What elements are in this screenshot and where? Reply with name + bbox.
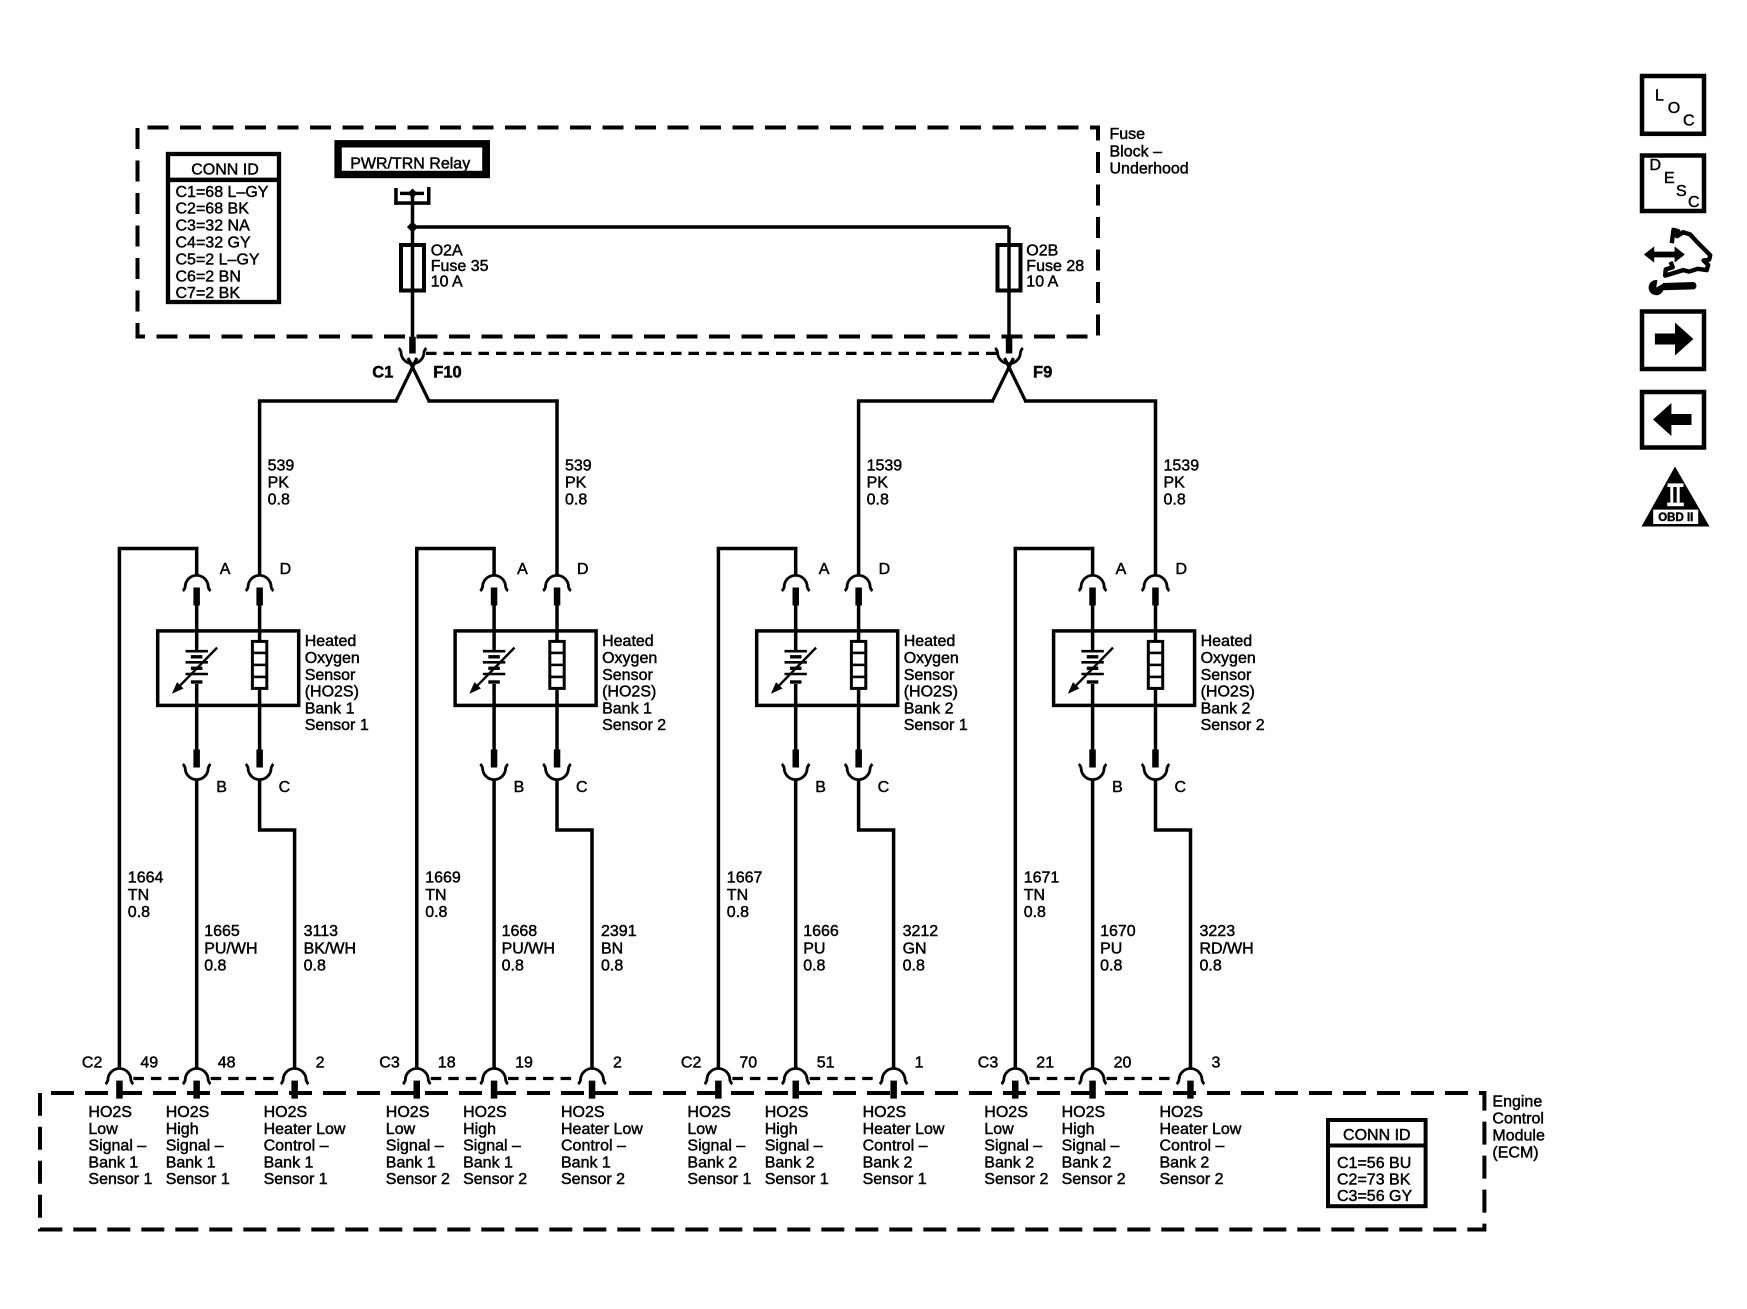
svg-text:Sensor 2: Sensor 2 bbox=[1160, 1171, 1224, 1188]
svg-text:C3=56 GY: C3=56 GY bbox=[1337, 1188, 1412, 1205]
label connector C2 (group 3) bbox=[681, 1055, 702, 1072]
svg-text:Bank 1: Bank 1 bbox=[166, 1154, 216, 1171]
svg-text:1665: 1665 bbox=[204, 923, 240, 940]
ECM pin 21 connector (group 4) bbox=[1001, 1069, 1029, 1099]
svg-text:Sensor 2: Sensor 2 bbox=[386, 1171, 450, 1188]
wire heater low 2391 pin C to ECM (group 2) bbox=[557, 780, 592, 1068]
label pin number 2 bbox=[316, 1055, 325, 1072]
svg-text:Sensor 2: Sensor 2 bbox=[602, 717, 666, 734]
svg-text:B: B bbox=[216, 779, 227, 796]
svg-text:1666: 1666 bbox=[803, 923, 839, 940]
connector pin A (group 4) bbox=[1079, 575, 1107, 605]
label pin A (group 1) bbox=[220, 561, 231, 578]
HO2S sensor box Bank 2 Sensor 2 bbox=[1054, 631, 1195, 706]
connector F9 splice bbox=[857, 337, 1157, 576]
label Engine Control Module (ECM) bbox=[1492, 1094, 1545, 1162]
connector pin D (group 2) bbox=[543, 575, 571, 605]
ECM connector dotted line (group 1) bbox=[133, 1077, 280, 1080]
svg-text:Heater Low: Heater Low bbox=[1160, 1121, 1242, 1138]
label pin C (group 3) bbox=[878, 779, 890, 796]
wire 539 PK feed to HO2S Bank 1 Sensor 2 label bbox=[565, 458, 592, 509]
label pin C (group 2) bbox=[576, 779, 588, 796]
wire 1539 PK feed to HO2S Bank 2 Sensor 2 label bbox=[1164, 458, 1200, 509]
label pin B (group 4) bbox=[1112, 779, 1123, 796]
svg-text:10 A: 10 A bbox=[1026, 273, 1058, 290]
svg-text:HO2S: HO2S bbox=[1160, 1104, 1204, 1121]
wire low signal 1671 from ECM to sensor A (group 4) bbox=[1015, 549, 1092, 1069]
label pin number 21 bbox=[1036, 1055, 1054, 1072]
svg-text:3223: 3223 bbox=[1200, 923, 1236, 940]
svg-text:HO2S: HO2S bbox=[984, 1104, 1028, 1121]
svg-text:0.8: 0.8 bbox=[268, 492, 290, 509]
svg-text:Control: Control bbox=[1492, 1111, 1544, 1128]
heater element group 3 bbox=[851, 641, 865, 688]
svg-text:PK: PK bbox=[867, 475, 889, 492]
svg-text:3113: 3113 bbox=[304, 923, 339, 940]
connector pin A (group 3) bbox=[782, 575, 810, 605]
label ECM pin 20 description bbox=[1062, 1104, 1126, 1188]
wire heater to pin C (group 4) bbox=[1154, 688, 1158, 751]
svg-text:F10: F10 bbox=[433, 364, 461, 382]
label pin C (group 1) bbox=[279, 779, 291, 796]
svg-text:0.8: 0.8 bbox=[1200, 957, 1222, 974]
svg-text:21: 21 bbox=[1036, 1055, 1054, 1072]
svg-text:539: 539 bbox=[268, 458, 295, 475]
svg-text:Sensor 2: Sensor 2 bbox=[463, 1171, 527, 1188]
svg-text:HO2S: HO2S bbox=[386, 1104, 430, 1121]
svg-text:19: 19 bbox=[515, 1055, 533, 1072]
label ECM pin 2 description bbox=[561, 1104, 643, 1188]
wire heater low 3223 pin C to ECM (group 4) bbox=[1156, 780, 1191, 1068]
svg-text:Bank 2: Bank 2 bbox=[687, 1154, 737, 1171]
svg-text:48: 48 bbox=[218, 1055, 236, 1072]
ECM pin 20 connector (group 4) bbox=[1079, 1069, 1107, 1099]
svg-text:539: 539 bbox=[565, 458, 592, 475]
svg-text:Low: Low bbox=[386, 1121, 416, 1138]
svg-text:(HO2S): (HO2S) bbox=[602, 684, 656, 701]
svg-text:0.8: 0.8 bbox=[565, 492, 587, 509]
svg-text:C1: C1 bbox=[372, 364, 393, 382]
svg-text:Control –: Control – bbox=[264, 1138, 329, 1155]
svg-text:Heated: Heated bbox=[904, 633, 956, 650]
ECM connector dotted line (group 2) bbox=[431, 1077, 578, 1080]
label fuse O2B bbox=[1026, 243, 1084, 291]
svg-text:PU/WH: PU/WH bbox=[204, 940, 257, 957]
svg-text:C2: C2 bbox=[82, 1055, 103, 1072]
connector boundary dotted line bbox=[426, 352, 997, 355]
label pin A (group 3) bbox=[819, 561, 830, 578]
HO2S sensor box Bank 2 Sensor 1 bbox=[757, 631, 898, 706]
svg-text:A: A bbox=[819, 561, 830, 578]
wire heater low 3113 pin C to ECM (group 1) bbox=[260, 780, 295, 1068]
label pin number 20 bbox=[1114, 1055, 1132, 1072]
label wire 1670 PU 0.8 bbox=[1100, 923, 1136, 974]
svg-text:PWR/TRN Relay: PWR/TRN Relay bbox=[350, 156, 470, 173]
connector C1 / F10 splice bbox=[258, 337, 559, 576]
svg-text:Sensor 2: Sensor 2 bbox=[561, 1171, 625, 1188]
svg-text:Signal –: Signal – bbox=[463, 1138, 521, 1155]
svg-text:B: B bbox=[1112, 779, 1123, 796]
svg-text:Signal –: Signal – bbox=[88, 1138, 146, 1155]
label HO2S box group 3 bbox=[904, 633, 968, 734]
wire high signal 1666 pin B to ECM (group 3) bbox=[794, 780, 798, 1068]
sensor element (variable voltage source) group 2 bbox=[469, 648, 514, 694]
label HO2S box group 4 bbox=[1201, 633, 1265, 734]
svg-text:Block –: Block – bbox=[1110, 143, 1163, 160]
ECM pin 3 connector (group 4) bbox=[1177, 1069, 1205, 1099]
label pin number 70 bbox=[739, 1055, 757, 1072]
svg-text:Signal –: Signal – bbox=[166, 1138, 224, 1155]
svg-text:PU: PU bbox=[1100, 940, 1122, 957]
svg-text:51: 51 bbox=[817, 1055, 835, 1072]
svg-text:D: D bbox=[879, 561, 891, 578]
connector pin D (group 3) bbox=[845, 575, 873, 605]
svg-text:PK: PK bbox=[268, 475, 290, 492]
svg-text:PK: PK bbox=[1164, 475, 1186, 492]
connector pin A (group 2) bbox=[480, 575, 508, 605]
label pin number 49 bbox=[140, 1055, 158, 1072]
wire low signal 1664 from ECM to sensor A (group 1) bbox=[119, 549, 196, 1069]
svg-text:Sensor 1: Sensor 1 bbox=[305, 717, 369, 734]
ECM pin 18 connector (group 2) bbox=[403, 1069, 431, 1099]
svg-text:C: C bbox=[1683, 112, 1695, 129]
label ECM pin 3 description bbox=[1160, 1104, 1242, 1188]
icon LOC box bbox=[1642, 76, 1704, 134]
heater element group 4 bbox=[1148, 641, 1162, 688]
svg-text:Control –: Control – bbox=[561, 1138, 626, 1155]
ECM pin 48 connector (group 1) bbox=[183, 1069, 211, 1099]
svg-text:A: A bbox=[517, 561, 528, 578]
svg-text:A: A bbox=[220, 561, 231, 578]
ECM pin 70 connector (group 3) bbox=[705, 1069, 733, 1099]
label connector C3 (group 4) bbox=[978, 1055, 999, 1072]
svg-text:High: High bbox=[166, 1121, 199, 1138]
fuse O2A Fuse 35 10A bbox=[401, 245, 424, 291]
svg-text:Bank 2: Bank 2 bbox=[984, 1154, 1034, 1171]
svg-text:Fuse: Fuse bbox=[1110, 126, 1146, 143]
svg-text:C3=32 NA: C3=32 NA bbox=[176, 218, 251, 235]
wire pin A into sensor box (group 2) bbox=[492, 605, 496, 651]
svg-text:49: 49 bbox=[140, 1055, 158, 1072]
connector pin A (group 1) bbox=[183, 575, 211, 605]
svg-text:Bank 1: Bank 1 bbox=[463, 1154, 513, 1171]
label ECM pin 21 description bbox=[984, 1104, 1048, 1188]
connector pin B (group 1) bbox=[183, 750, 211, 780]
svg-text:F9: F9 bbox=[1033, 364, 1052, 382]
label F9 bbox=[1033, 364, 1052, 382]
svg-text:TN: TN bbox=[727, 887, 748, 904]
wire 539 PK feed to HO2S Bank 1 Sensor 1 label bbox=[268, 458, 295, 509]
svg-text:HO2S: HO2S bbox=[88, 1104, 132, 1121]
svg-text:Heater Low: Heater Low bbox=[863, 1121, 945, 1138]
svg-text:Heated: Heated bbox=[602, 633, 654, 650]
svg-text:0.8: 0.8 bbox=[502, 957, 524, 974]
svg-text:C2=68 BK: C2=68 BK bbox=[176, 201, 250, 218]
svg-text:20: 20 bbox=[1114, 1055, 1132, 1072]
svg-text:0.8: 0.8 bbox=[1024, 904, 1046, 921]
label pin number 19 bbox=[515, 1055, 533, 1072]
svg-text:C5=2 L–GY: C5=2 L–GY bbox=[176, 251, 260, 268]
svg-text:HO2S: HO2S bbox=[1062, 1104, 1106, 1121]
heater element group 1 bbox=[252, 641, 266, 688]
svg-text:BK/WH: BK/WH bbox=[304, 940, 356, 957]
connector pin C (group 1) bbox=[246, 750, 274, 780]
svg-text:(HO2S): (HO2S) bbox=[305, 684, 359, 701]
label wire 1664 TN 0.8 bbox=[128, 870, 164, 921]
svg-text:Sensor: Sensor bbox=[602, 667, 653, 684]
svg-text:Heated: Heated bbox=[1201, 633, 1253, 650]
wire heater to pin C (group 2) bbox=[555, 688, 559, 751]
svg-text:Sensor 1: Sensor 1 bbox=[264, 1171, 328, 1188]
svg-text:1671: 1671 bbox=[1024, 870, 1060, 887]
label wire 2391 BN 0.8 bbox=[601, 923, 637, 974]
svg-text:TN: TN bbox=[1024, 887, 1045, 904]
label pin number 48 bbox=[218, 1055, 236, 1072]
svg-text:D: D bbox=[1176, 561, 1188, 578]
svg-text:PU: PU bbox=[803, 940, 825, 957]
svg-text:Engine: Engine bbox=[1492, 1094, 1542, 1111]
wire pin D into sensor box (group 3) bbox=[857, 605, 861, 643]
svg-text:Signal –: Signal – bbox=[1062, 1138, 1120, 1155]
label wire 1665 PU/WH 0.8 bbox=[204, 923, 257, 974]
svg-text:1539: 1539 bbox=[867, 458, 903, 475]
svg-text:C: C bbox=[279, 779, 291, 796]
wire high signal 1668 pin B to ECM (group 2) bbox=[492, 780, 496, 1068]
ECM connector dotted line (group 4) bbox=[1029, 1077, 1176, 1080]
svg-text:Module: Module bbox=[1492, 1127, 1545, 1144]
svg-text:Low: Low bbox=[88, 1121, 118, 1138]
svg-text:0.8: 0.8 bbox=[867, 492, 889, 509]
svg-text:Oxygen: Oxygen bbox=[1201, 650, 1256, 667]
svg-text:C1=56 BU: C1=56 BU bbox=[1337, 1155, 1411, 1172]
svg-text:Bank 1: Bank 1 bbox=[386, 1154, 436, 1171]
ECM pin 51 connector (group 3) bbox=[782, 1069, 810, 1099]
ECM connector dotted line (group 3) bbox=[732, 1077, 879, 1080]
label pin B (group 2) bbox=[514, 779, 525, 796]
label F10 bbox=[433, 364, 461, 382]
svg-text:TN: TN bbox=[128, 887, 149, 904]
svg-text:Bank 1: Bank 1 bbox=[561, 1154, 611, 1171]
svg-text:Signal –: Signal – bbox=[386, 1138, 444, 1155]
label Fuse Block - Underhood bbox=[1110, 126, 1189, 178]
relay K1 output contact symbol bbox=[394, 187, 430, 205]
svg-text:D: D bbox=[577, 561, 589, 578]
svg-text:D: D bbox=[1650, 157, 1662, 174]
svg-text:D: D bbox=[280, 561, 292, 578]
wire sensor to pin B (group 1) bbox=[195, 684, 199, 751]
label wire 1666 PU 0.8 bbox=[803, 923, 839, 974]
svg-text:0.8: 0.8 bbox=[601, 957, 623, 974]
wire pin D into sensor box (group 2) bbox=[555, 605, 559, 643]
svg-text:S: S bbox=[1676, 183, 1687, 200]
label pin D (group 3) bbox=[879, 561, 891, 578]
label HO2S box group 1 bbox=[305, 633, 369, 734]
svg-text:1667: 1667 bbox=[727, 870, 763, 887]
svg-text:Bank 2: Bank 2 bbox=[765, 1154, 815, 1171]
label pin A (group 2) bbox=[517, 561, 528, 578]
svg-text:0.8: 0.8 bbox=[727, 904, 749, 921]
wire heater to pin C (group 3) bbox=[857, 688, 861, 751]
svg-text:(ECM): (ECM) bbox=[1492, 1144, 1538, 1161]
svg-text:Signal –: Signal – bbox=[984, 1138, 1042, 1155]
connector pin B (group 2) bbox=[480, 750, 508, 780]
label pin number 2 bbox=[613, 1055, 622, 1072]
wire relay to fuse O2A bbox=[411, 195, 415, 338]
svg-text:HO2S: HO2S bbox=[687, 1104, 731, 1121]
svg-text:PU/WH: PU/WH bbox=[502, 940, 555, 957]
connector pin D (group 1) bbox=[246, 575, 274, 605]
svg-text:C3: C3 bbox=[978, 1055, 999, 1072]
svg-text:0.8: 0.8 bbox=[425, 904, 447, 921]
label connector C2 (group 1) bbox=[82, 1055, 103, 1072]
wire pin D into sensor box (group 4) bbox=[1154, 605, 1158, 643]
svg-text:Oxygen: Oxygen bbox=[904, 650, 959, 667]
svg-text:3212: 3212 bbox=[903, 923, 939, 940]
svg-text:TN: TN bbox=[425, 887, 446, 904]
svg-text:HO2S: HO2S bbox=[463, 1104, 507, 1121]
svg-text:Heater Low: Heater Low bbox=[264, 1121, 346, 1138]
label connector C3 (group 2) bbox=[379, 1055, 400, 1072]
label pin number 3 bbox=[1212, 1055, 1221, 1072]
svg-text:Bank 2: Bank 2 bbox=[863, 1154, 913, 1171]
wire bus to fuse O2B bbox=[411, 227, 1009, 338]
label pin D (group 2) bbox=[577, 561, 589, 578]
svg-text:Sensor: Sensor bbox=[1201, 667, 1252, 684]
svg-text:BN: BN bbox=[601, 940, 623, 957]
svg-text:Bank 1: Bank 1 bbox=[264, 1154, 314, 1171]
svg-text:E: E bbox=[1664, 170, 1675, 187]
sensor element (variable voltage source) group 4 bbox=[1068, 648, 1113, 694]
label pin number 51 bbox=[817, 1055, 835, 1072]
label pin C (group 4) bbox=[1175, 779, 1187, 796]
svg-text:1539: 1539 bbox=[1164, 458, 1200, 475]
svg-text:Bank 1: Bank 1 bbox=[305, 700, 355, 717]
wire heater low 3212 pin C to ECM (group 3) bbox=[859, 780, 894, 1068]
wire sensor to pin B (group 2) bbox=[492, 684, 496, 751]
svg-text:Underhood: Underhood bbox=[1110, 161, 1189, 178]
svg-text:0.8: 0.8 bbox=[903, 957, 925, 974]
wire high signal 1665 pin B to ECM (group 1) bbox=[195, 780, 199, 1068]
svg-text:0.8: 0.8 bbox=[204, 957, 226, 974]
svg-text:Bank 2: Bank 2 bbox=[1160, 1154, 1210, 1171]
svg-text:B: B bbox=[815, 779, 826, 796]
svg-text:Low: Low bbox=[984, 1121, 1014, 1138]
svg-text:Sensor 2: Sensor 2 bbox=[1201, 717, 1265, 734]
svg-text:1669: 1669 bbox=[425, 870, 461, 887]
svg-text:High: High bbox=[463, 1121, 496, 1138]
svg-text:Control –: Control – bbox=[1160, 1138, 1225, 1155]
svg-text:OBD II: OBD II bbox=[1658, 512, 1693, 524]
svg-text:Sensor 2: Sensor 2 bbox=[984, 1171, 1048, 1188]
svg-text:Bank 2: Bank 2 bbox=[904, 700, 954, 717]
svg-text:HO2S: HO2S bbox=[561, 1104, 605, 1121]
svg-text:Control –: Control – bbox=[863, 1138, 928, 1155]
svg-text:A: A bbox=[1116, 561, 1127, 578]
label pin B (group 3) bbox=[815, 779, 826, 796]
sensor element (variable voltage source) group 3 bbox=[771, 648, 816, 694]
svg-text:1668: 1668 bbox=[502, 923, 538, 940]
svg-text:70: 70 bbox=[739, 1055, 757, 1072]
PWR/TRN Relay label box bbox=[334, 140, 490, 178]
label pin D (group 1) bbox=[280, 561, 292, 578]
ECM pin 2 connector (group 1) bbox=[281, 1069, 309, 1099]
wire pin A into sensor box (group 3) bbox=[794, 605, 798, 651]
fuse O2B Fuse 28 10A bbox=[998, 245, 1021, 291]
svg-text:Sensor 1: Sensor 1 bbox=[765, 1171, 829, 1188]
svg-text:0.8: 0.8 bbox=[1164, 492, 1186, 509]
label ECM pin 48 description bbox=[166, 1104, 230, 1188]
wire pin D into sensor box (group 1) bbox=[258, 605, 262, 643]
svg-text:0.8: 0.8 bbox=[128, 904, 150, 921]
svg-text:C: C bbox=[576, 779, 588, 796]
wire sensor to pin B (group 3) bbox=[794, 684, 798, 751]
svg-text:Low: Low bbox=[687, 1121, 717, 1138]
svg-text:Sensor 1: Sensor 1 bbox=[687, 1171, 751, 1188]
CONN ID table (fuse block) bbox=[168, 154, 279, 302]
svg-text:(HO2S): (HO2S) bbox=[1201, 684, 1255, 701]
svg-text:PK: PK bbox=[565, 475, 587, 492]
svg-text:2: 2 bbox=[613, 1055, 622, 1072]
svg-text:RD/WH: RD/WH bbox=[1200, 940, 1254, 957]
svg-text:Sensor: Sensor bbox=[904, 667, 955, 684]
icon DESC box bbox=[1642, 156, 1704, 212]
svg-text:Heater Low: Heater Low bbox=[561, 1121, 643, 1138]
svg-text:HO2S: HO2S bbox=[264, 1104, 308, 1121]
svg-text:O: O bbox=[1668, 100, 1680, 117]
label C1 bbox=[372, 364, 393, 382]
label pin B (group 1) bbox=[216, 779, 227, 796]
svg-text:HO2S: HO2S bbox=[765, 1104, 809, 1121]
svg-text:Sensor 1: Sensor 1 bbox=[88, 1171, 152, 1188]
sensor element (variable voltage source) group 1 bbox=[172, 648, 217, 694]
svg-text:C2=73 BK: C2=73 BK bbox=[1337, 1172, 1411, 1189]
label ECM pin 70 description bbox=[687, 1104, 751, 1188]
svg-text:Bank 1: Bank 1 bbox=[88, 1154, 138, 1171]
svg-text:Oxygen: Oxygen bbox=[305, 650, 360, 667]
label ECM pin 1 description bbox=[863, 1104, 945, 1188]
ECM pin 1 connector (group 3) bbox=[880, 1069, 908, 1099]
heater element group 2 bbox=[550, 641, 564, 688]
label wire 1667 TN 0.8 bbox=[727, 870, 763, 921]
Engine Control Module dashed box bbox=[40, 1093, 1484, 1230]
CONN ID table (ECM) bbox=[1328, 1120, 1426, 1206]
icon right arrow box bbox=[1642, 312, 1704, 370]
wire low signal 1669 from ECM to sensor A (group 2) bbox=[417, 549, 494, 1069]
label HO2S box group 2 bbox=[602, 633, 666, 734]
svg-text:Sensor 1: Sensor 1 bbox=[166, 1171, 230, 1188]
wire sensor to pin B (group 4) bbox=[1091, 684, 1095, 751]
wire pin A into sensor box (group 1) bbox=[195, 605, 199, 651]
svg-text:C1=68 L–GY: C1=68 L–GY bbox=[176, 184, 269, 201]
svg-text:Bank 2: Bank 2 bbox=[1201, 700, 1251, 717]
svg-text:C: C bbox=[1175, 779, 1187, 796]
wire high signal 1670 pin B to ECM (group 4) bbox=[1091, 780, 1095, 1068]
svg-text:CONN ID: CONN ID bbox=[191, 162, 259, 179]
junction node bbox=[407, 221, 418, 232]
svg-text:Sensor 1: Sensor 1 bbox=[904, 717, 968, 734]
wire 1539 PK feed to HO2S Bank 2 Sensor 1 label bbox=[867, 458, 903, 509]
icon wrench and connector bbox=[1644, 230, 1710, 295]
label fuse O2A bbox=[431, 243, 489, 291]
svg-text:Heated: Heated bbox=[305, 633, 357, 650]
ECM pin 49 connector (group 1) bbox=[106, 1069, 134, 1099]
svg-text:10 A: 10 A bbox=[431, 273, 463, 290]
connector pin C (group 2) bbox=[543, 750, 571, 780]
svg-text:C3: C3 bbox=[379, 1055, 400, 1072]
label pin A (group 4) bbox=[1116, 561, 1127, 578]
label wire 3223 RD/WH 0.8 bbox=[1200, 923, 1254, 974]
Fuse Block - Underhood dashed box bbox=[138, 128, 1099, 337]
